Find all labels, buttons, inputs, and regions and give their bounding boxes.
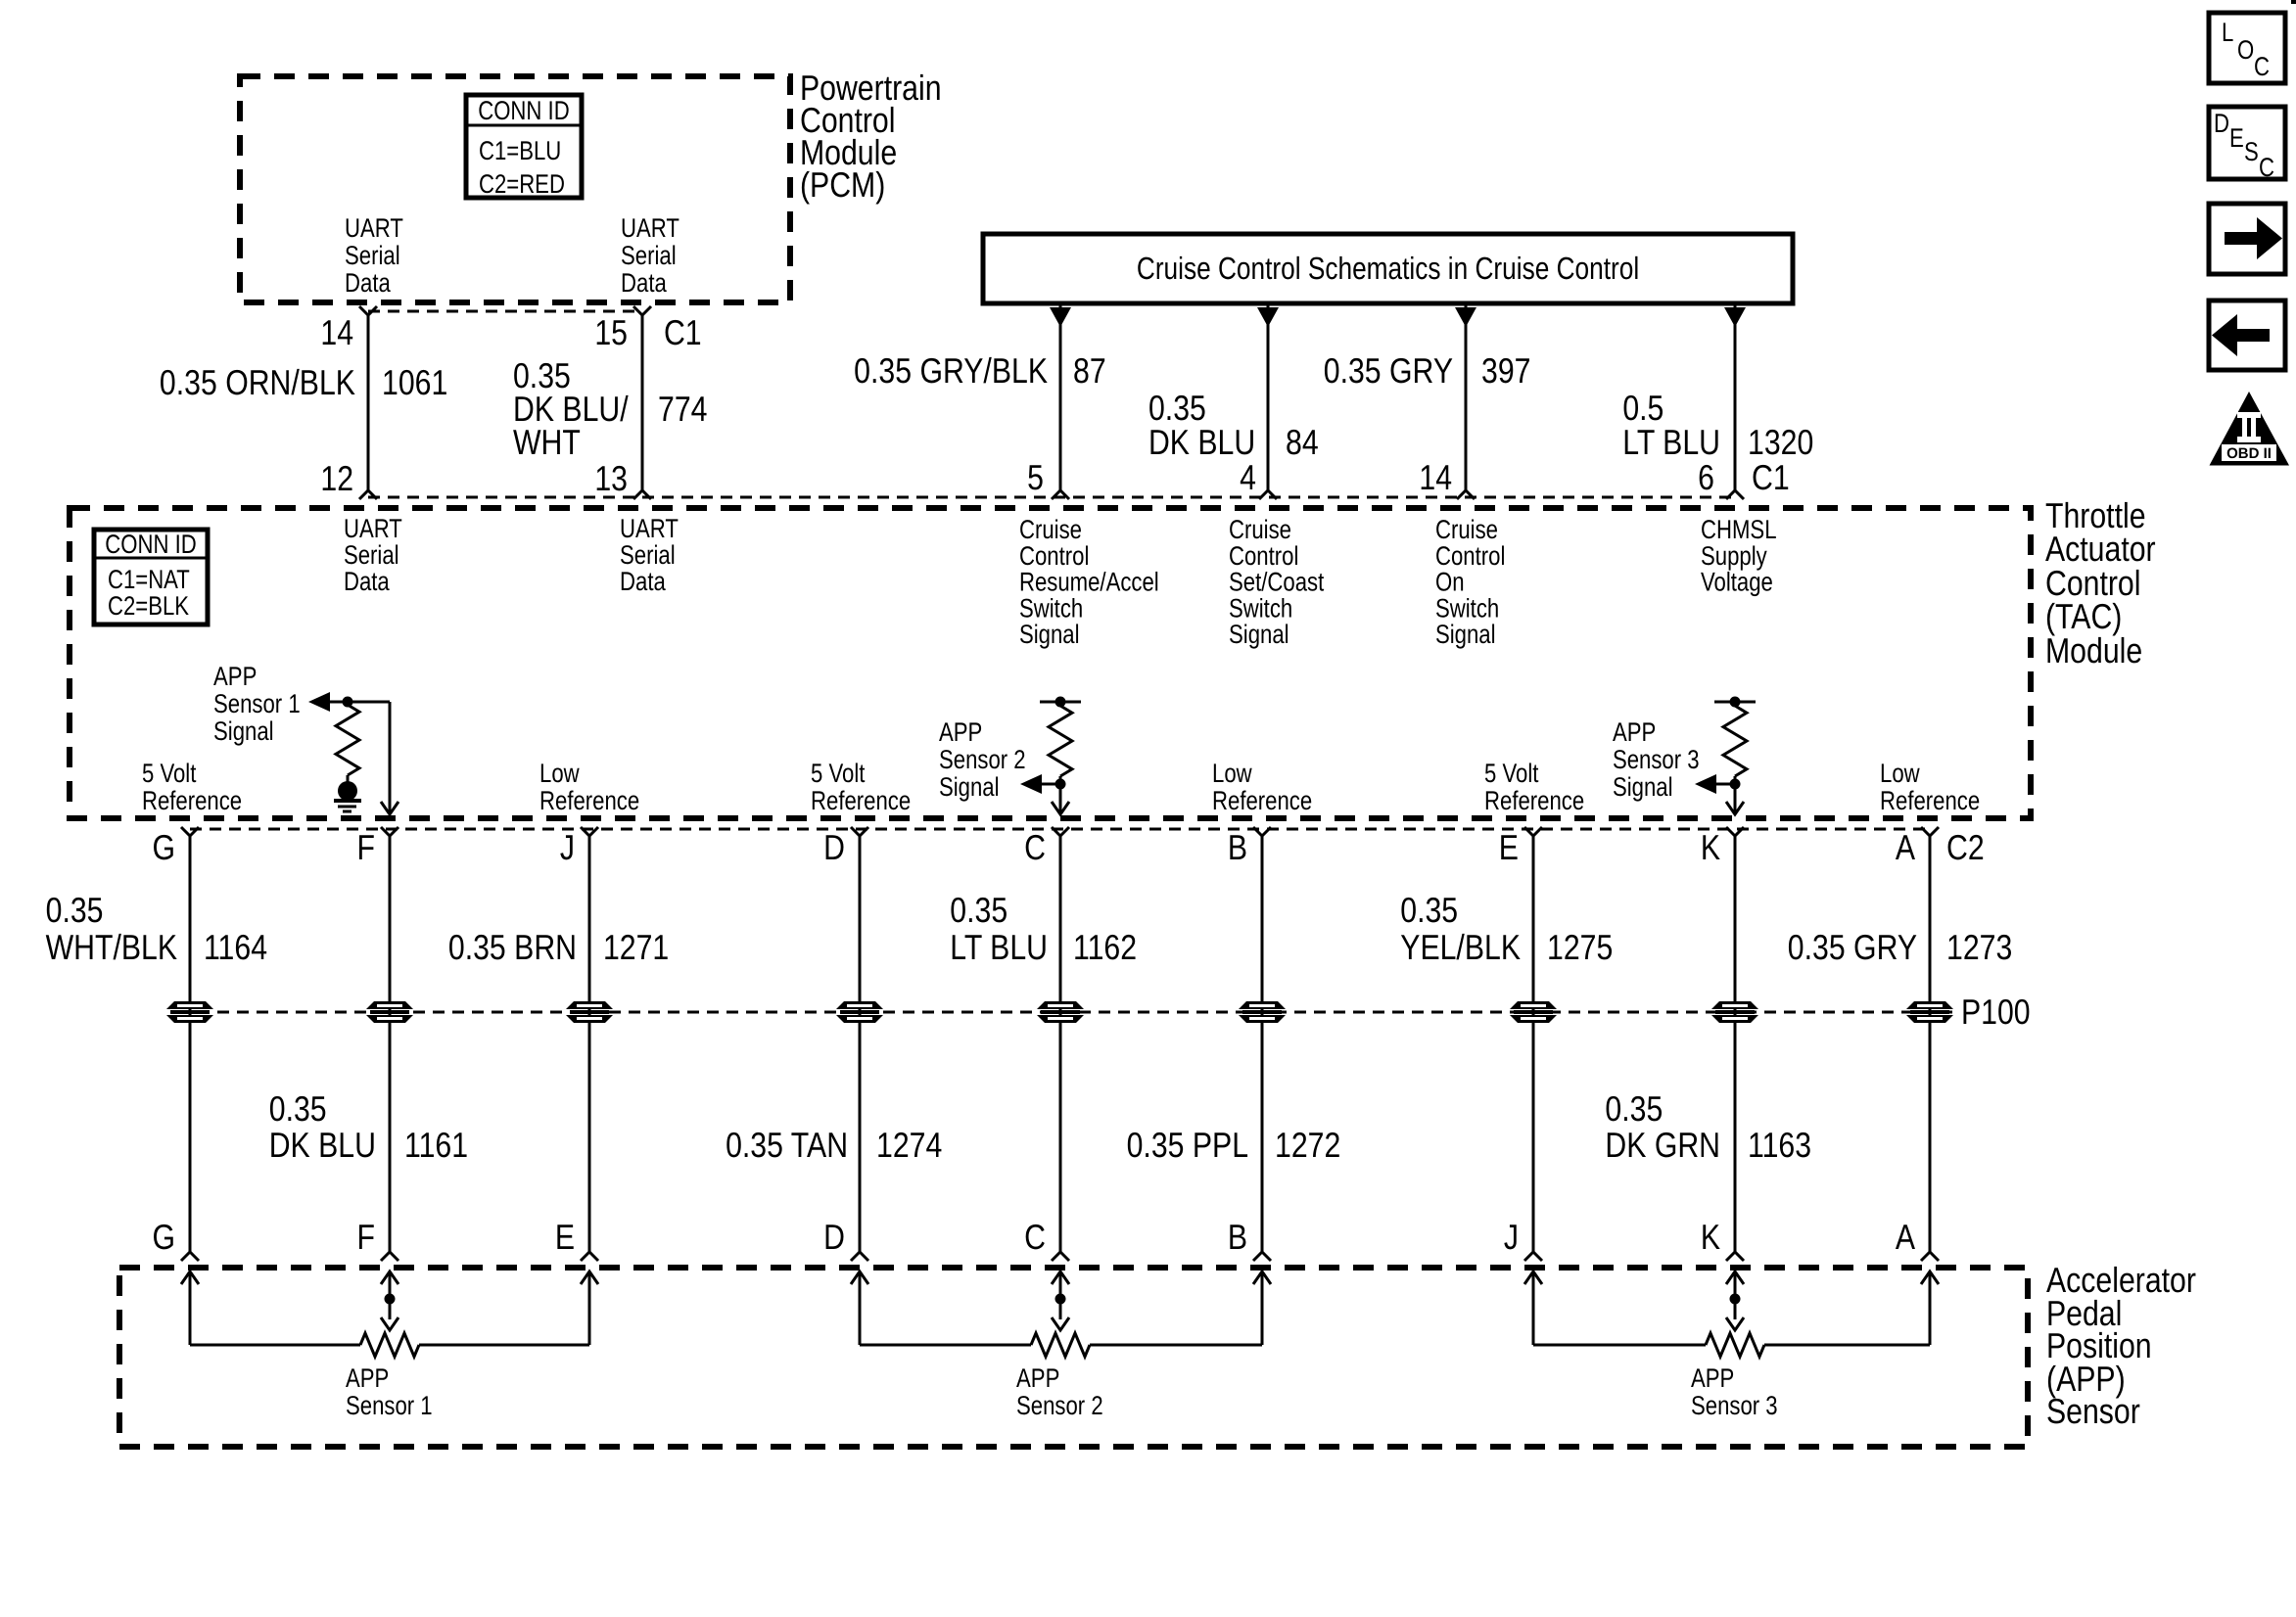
svg-text:APP: APP	[939, 717, 982, 747]
svg-text:Sensor 1: Sensor 1	[346, 1391, 433, 1420]
APP sensor 2 signal arrow	[1020, 774, 1042, 794]
svg-text:Low: Low	[1880, 759, 1920, 788]
PCM C1 connector line	[368, 310, 642, 313]
svg-text:D: D	[823, 827, 845, 867]
svg-text:0.35: 0.35	[46, 890, 104, 930]
svg-text:B: B	[1228, 1217, 1247, 1257]
svg-text:B: B	[1228, 827, 1247, 867]
wire	[1929, 836, 1932, 1252]
svg-text:Sensor 2: Sensor 2	[939, 745, 1026, 774]
pin E (TAC C2)	[1524, 827, 1542, 836]
wire from cruise control box	[1734, 303, 1737, 490]
svg-text:O: O	[2237, 35, 2254, 65]
pin K (TAC C2)	[1726, 827, 1744, 836]
svg-text:0.35: 0.35	[269, 1088, 327, 1129]
svg-text:6: 6	[1698, 457, 1714, 497]
pin 15	[633, 306, 651, 315]
pin J (APP sensor)	[1524, 1252, 1542, 1261]
svg-text:Low: Low	[1212, 759, 1252, 788]
pin C (TAC C2)	[1052, 827, 1069, 836]
svg-text:1161: 1161	[404, 1125, 468, 1165]
svg-text:C: C	[1024, 827, 1046, 867]
svg-text:C1=NAT: C1=NAT	[108, 565, 190, 594]
svg-text:1162: 1162	[1073, 927, 1137, 967]
pin J (TAC C2)	[581, 827, 598, 836]
svg-text:UART: UART	[345, 213, 403, 243]
svg-text:D: D	[2214, 109, 2229, 138]
arrow	[1050, 307, 1071, 327]
svg-text:Set/Coast: Set/Coast	[1229, 568, 1325, 597]
svg-text:J: J	[1504, 1217, 1519, 1257]
wiper wire	[389, 1271, 392, 1319]
resistor (TAC internal, sensor 1)	[336, 705, 359, 775]
svg-text:0.35 BRN: 0.35 BRN	[448, 927, 577, 967]
wire	[189, 1271, 192, 1345]
svg-text:1164: 1164	[204, 927, 267, 967]
pin E (APP sensor)	[581, 1252, 598, 1261]
svg-text:Cruise Control Schematics in C: Cruise Control Schematics in Cruise Cont…	[1137, 251, 1639, 286]
svg-text:OBD II: OBD II	[2226, 445, 2272, 462]
svg-text:1272: 1272	[1275, 1125, 1340, 1165]
TAC module box	[70, 508, 2031, 818]
svg-text:C1=BLU: C1=BLU	[479, 136, 561, 165]
svg-text:G: G	[152, 1217, 175, 1257]
svg-text:Data: Data	[621, 268, 668, 298]
svg-text:Supply: Supply	[1701, 541, 1767, 571]
wire to pin F	[389, 702, 392, 812]
svg-text:A: A	[1896, 827, 1915, 867]
svg-text:Signal: Signal	[1229, 620, 1289, 649]
resistor (APP)	[1031, 1333, 1090, 1357]
ground	[338, 781, 357, 801]
svg-text:Reference: Reference	[1484, 786, 1584, 815]
node	[1730, 1294, 1741, 1305]
svg-text:774: 774	[658, 389, 707, 429]
svg-text:1275: 1275	[1547, 927, 1613, 967]
wire entry arrow	[1524, 1271, 1542, 1284]
svg-text:S: S	[2244, 137, 2259, 166]
PCM CONN ID table	[466, 95, 582, 198]
node	[1730, 697, 1741, 708]
arrow	[1724, 307, 1746, 327]
wire entry arrow	[181, 1271, 199, 1284]
svg-text:LT BLU: LT BLU	[950, 927, 1048, 967]
svg-text:Switch: Switch	[1229, 593, 1292, 623]
svg-text:Voltage: Voltage	[1701, 568, 1773, 597]
svg-text:0.35 GRY/BLK: 0.35 GRY/BLK	[854, 350, 1048, 391]
svg-text:C: C	[2259, 153, 2274, 182]
wire	[189, 836, 192, 1252]
TAC C2 connector line	[190, 828, 1930, 831]
svg-text:Sensor 1: Sensor 1	[213, 689, 301, 718]
LOC icon	[2209, 13, 2285, 83]
pin fork	[1457, 490, 1475, 499]
svg-text:APP: APP	[1613, 717, 1656, 747]
svg-text:DK GRN: DK GRN	[1605, 1125, 1720, 1165]
wire	[1532, 1271, 1535, 1345]
svg-text:1320: 1320	[1748, 422, 1813, 462]
pin fork	[1052, 490, 1069, 499]
supply bar	[1040, 701, 1081, 704]
svg-text:K: K	[1701, 1217, 1720, 1257]
svg-text:Signal: Signal	[1019, 620, 1080, 649]
pin 14	[359, 306, 377, 315]
wire entry arrow	[1253, 1271, 1271, 1284]
svg-text:C2: C2	[1946, 827, 1985, 867]
svg-text:Serial: Serial	[344, 540, 399, 570]
svg-text:J: J	[560, 827, 575, 867]
svg-text:397: 397	[1481, 350, 1530, 391]
node	[1055, 779, 1066, 790]
supply bar	[1714, 701, 1756, 704]
inline connector P100	[366, 1001, 413, 1023]
svg-text:Switch: Switch	[1435, 593, 1499, 623]
inline connector P100	[1510, 1001, 1557, 1023]
wire	[1532, 836, 1535, 1252]
TAC C1 connector line	[368, 496, 1735, 499]
svg-text:Reference: Reference	[1880, 786, 1980, 815]
corner mark	[2291, 0, 2296, 4]
svg-text:0.35 GRY: 0.35 GRY	[1324, 350, 1453, 391]
svg-text:Resume/Accel: Resume/Accel	[1019, 568, 1159, 597]
wire	[859, 1271, 862, 1345]
node	[385, 1294, 396, 1305]
svg-text:P100: P100	[1961, 992, 2031, 1032]
wire	[1059, 836, 1062, 1252]
svg-text:C: C	[2254, 52, 2270, 81]
back arrow icon	[2209, 300, 2285, 370]
svg-text:Signal: Signal	[213, 716, 274, 746]
inline connector P100	[166, 1001, 213, 1023]
svg-text:K: K	[1701, 827, 1720, 867]
svg-text:Serial: Serial	[345, 241, 400, 270]
svg-text:G: G	[152, 827, 175, 867]
wire to pin C	[1059, 784, 1062, 812]
svg-text:CONN ID: CONN ID	[105, 530, 196, 559]
svg-text:Data: Data	[345, 268, 392, 298]
inline connector P100	[1239, 1001, 1286, 1023]
arrow	[1455, 307, 1476, 327]
svg-text:C1: C1	[664, 312, 702, 352]
node (junction)	[343, 697, 353, 708]
svg-text:APP: APP	[1691, 1363, 1734, 1393]
svg-text:Serial: Serial	[620, 540, 676, 570]
svg-text:LT BLU: LT BLU	[1622, 422, 1720, 462]
svg-text:12: 12	[320, 458, 353, 498]
resistor (APP)	[1706, 1333, 1764, 1357]
svg-text:0.35: 0.35	[1400, 890, 1458, 930]
svg-text:0.35 ORN/BLK: 0.35 ORN/BLK	[160, 362, 355, 402]
svg-text:Signal: Signal	[939, 772, 1000, 802]
svg-text:5 Volt: 5 Volt	[811, 759, 866, 788]
svg-text:0.35 PPL: 0.35 PPL	[1127, 1125, 1248, 1165]
pin fork	[1726, 490, 1744, 499]
svg-text:E: E	[2229, 123, 2244, 153]
svg-text:5: 5	[1027, 457, 1044, 497]
pin B (TAC C2)	[1253, 827, 1271, 836]
svg-text:DK BLU: DK BLU	[269, 1125, 376, 1165]
pin D (APP sensor)	[851, 1252, 868, 1261]
inline connector P100	[566, 1001, 613, 1023]
svg-text:CHMSL: CHMSL	[1701, 515, 1777, 544]
svg-text:Cruise: Cruise	[1019, 515, 1082, 544]
svg-text:15: 15	[594, 312, 628, 352]
svg-text:C1: C1	[1752, 457, 1790, 497]
wire 774	[641, 315, 644, 490]
svg-text:Sensor 3: Sensor 3	[1691, 1391, 1778, 1420]
pin G (TAC C2)	[181, 827, 199, 836]
arrow	[1257, 307, 1279, 327]
svg-text:1271: 1271	[603, 927, 669, 967]
svg-text:87: 87	[1073, 350, 1106, 391]
svg-text:Switch: Switch	[1019, 593, 1083, 623]
TAC CONN ID table	[94, 530, 208, 624]
APP sensor 1 signal arrow	[308, 692, 330, 712]
node	[1055, 1294, 1066, 1305]
svg-text:Cruise: Cruise	[1229, 515, 1291, 544]
svg-text:CONN ID: CONN ID	[478, 96, 569, 125]
pin C (APP sensor)	[1052, 1252, 1069, 1261]
svg-text:(PCM): (PCM)	[800, 164, 885, 205]
OBD II icon	[2210, 392, 2290, 466]
svg-text:Sensor 2: Sensor 2	[1016, 1391, 1103, 1420]
svg-text:84: 84	[1286, 422, 1319, 462]
svg-text:Reference: Reference	[142, 786, 242, 815]
wire entry arrow	[851, 1271, 868, 1284]
inline connector P100	[1037, 1001, 1084, 1023]
wire to pin K	[1734, 784, 1737, 812]
wiper wire	[1059, 1271, 1062, 1319]
svg-text:5 Volt: 5 Volt	[142, 759, 197, 788]
svg-text:DK BLU: DK BLU	[1148, 422, 1255, 462]
DESC icon	[2209, 107, 2285, 179]
svg-text:L: L	[2222, 18, 2233, 47]
pin G (APP sensor)	[181, 1252, 199, 1261]
svg-text:1274: 1274	[876, 1125, 942, 1165]
svg-text:UART: UART	[620, 514, 679, 543]
svg-text:Signal: Signal	[1435, 620, 1496, 649]
svg-text:14: 14	[1419, 457, 1452, 497]
svg-text:Signal: Signal	[1613, 772, 1673, 802]
svg-text:4: 4	[1240, 457, 1256, 497]
svg-text:1163: 1163	[1748, 1125, 1811, 1165]
svg-text:1061: 1061	[382, 362, 447, 402]
svg-text:0.35 GRY: 0.35 GRY	[1788, 927, 1917, 967]
resistor (APP)	[360, 1333, 419, 1357]
wire entry arrow	[1726, 1271, 1744, 1284]
APP sensor 3 signal arrow	[1695, 774, 1716, 794]
wire entry arrow	[381, 1271, 398, 1284]
svg-text:Control: Control	[1229, 541, 1298, 571]
pin 13	[633, 490, 651, 499]
svg-text:F: F	[357, 1217, 375, 1257]
svg-text:A: A	[1896, 1217, 1915, 1257]
pin A (APP sensor)	[1921, 1252, 1939, 1261]
wire from cruise control box	[1267, 303, 1270, 490]
Cruise Control reference box	[983, 234, 1793, 303]
pin F (APP sensor)	[381, 1252, 398, 1261]
svg-text:Reference: Reference	[1212, 786, 1312, 815]
svg-text:Control: Control	[1019, 541, 1089, 571]
svg-text:UART: UART	[344, 514, 402, 543]
svg-text:APP: APP	[213, 662, 257, 691]
wire	[1261, 836, 1264, 1252]
svg-text:0.35: 0.35	[1605, 1088, 1663, 1129]
wire 1061	[367, 315, 370, 490]
svg-text:Reference: Reference	[539, 786, 639, 815]
wire	[1734, 836, 1737, 1252]
wire entry arrow	[1052, 1271, 1069, 1284]
svg-text:F: F	[357, 827, 375, 867]
pin F (TAC C2)	[381, 827, 398, 836]
wire	[859, 836, 862, 1252]
svg-text:1273: 1273	[1946, 927, 2012, 967]
svg-text:E: E	[1499, 827, 1519, 867]
svg-text:D: D	[823, 1217, 845, 1257]
svg-text:On: On	[1435, 568, 1465, 597]
svg-text:C2=RED: C2=RED	[479, 169, 565, 199]
APP sensor box	[119, 1268, 2028, 1447]
node	[1055, 697, 1066, 708]
wire from cruise control box	[1465, 303, 1468, 490]
svg-text:C2=BLK: C2=BLK	[108, 591, 189, 621]
svg-text:Cruise: Cruise	[1435, 515, 1498, 544]
svg-text:Data: Data	[344, 567, 391, 596]
wiper wire	[1734, 1271, 1737, 1319]
pin 12	[359, 490, 377, 499]
resistor (TAC internal, sensor 2)	[1049, 706, 1072, 776]
pin B (APP sensor)	[1253, 1252, 1271, 1261]
svg-text:APP: APP	[1016, 1363, 1059, 1393]
svg-text:Serial: Serial	[621, 241, 677, 270]
svg-text:0.35 TAN: 0.35 TAN	[726, 1125, 848, 1165]
svg-text:Sensor: Sensor	[2046, 1391, 2140, 1431]
inline connector P100	[1906, 1001, 1953, 1023]
svg-text:Data: Data	[620, 567, 667, 596]
svg-text:WHT/BLK: WHT/BLK	[46, 927, 177, 967]
pin A (TAC C2)	[1921, 827, 1939, 836]
svg-text:C: C	[1024, 1217, 1046, 1257]
forward arrow icon	[2209, 204, 2285, 274]
svg-text:Sensor 3: Sensor 3	[1613, 745, 1700, 774]
wire	[389, 836, 392, 1252]
svg-text:0.35: 0.35	[950, 890, 1007, 930]
PCM module box	[240, 76, 790, 302]
wire from cruise control box	[1059, 303, 1062, 490]
svg-text:WHT: WHT	[513, 422, 581, 462]
pin fork	[1259, 490, 1277, 499]
svg-text:13: 13	[594, 458, 628, 498]
wire entry arrow	[1921, 1271, 1939, 1284]
inline connector P100	[836, 1001, 883, 1023]
pin K (APP sensor)	[1726, 1252, 1744, 1261]
svg-text:APP: APP	[346, 1363, 389, 1393]
wire	[588, 836, 591, 1252]
svg-text:5 Volt: 5 Volt	[1484, 759, 1539, 788]
wire	[330, 701, 390, 704]
svg-text:Control: Control	[1435, 541, 1505, 571]
svg-text:14: 14	[320, 312, 353, 352]
svg-text:UART: UART	[621, 213, 679, 243]
P100 inline connector line	[217, 1011, 1954, 1014]
svg-text:Reference: Reference	[811, 786, 911, 815]
svg-text:Module: Module	[2045, 630, 2142, 670]
pin D (TAC C2)	[851, 827, 868, 836]
node	[1730, 779, 1741, 790]
inline connector P100	[1711, 1001, 1758, 1023]
svg-text:Low: Low	[539, 759, 580, 788]
svg-text:YEL/BLK: YEL/BLK	[1400, 927, 1521, 967]
resistor (TAC internal, sensor 3)	[1723, 706, 1747, 776]
svg-text:E: E	[555, 1217, 575, 1257]
wire entry arrow	[581, 1271, 598, 1284]
